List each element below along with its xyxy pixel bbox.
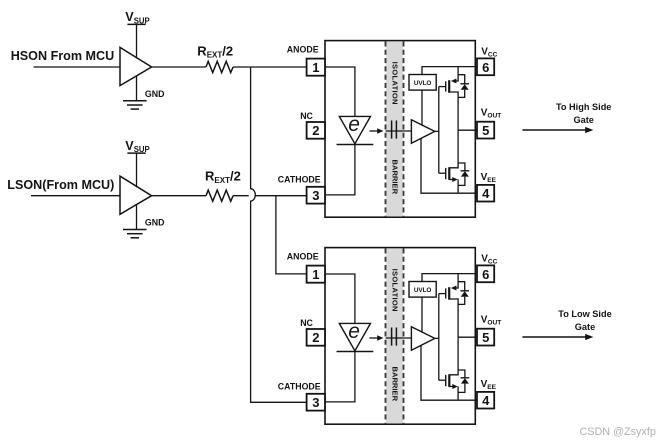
svg-text:BARRIER: BARRIER bbox=[390, 159, 399, 194]
wire buffer to resistor R1 bbox=[152, 66, 206, 68]
wire VCC rail of U1 (high-side driver) bbox=[422, 67, 477, 75]
svg-text:Gate: Gate bbox=[575, 322, 595, 332]
svg-text:5: 5 bbox=[482, 330, 489, 345]
svg-text:6: 6 bbox=[482, 267, 489, 282]
wire VCC rail of U3 (low-side driver) bbox=[422, 274, 477, 282]
wire pin1 to LED anode of U3 (low-side driver) bbox=[325, 274, 355, 323]
coupling capacitor across barrier of U3 (low-side driver) bbox=[386, 328, 412, 346]
svg-text:ISOLATION: ISOLATION bbox=[390, 269, 399, 312]
wire UVLO to op-amp of U1 (high-side driver) bbox=[421, 90, 423, 126]
ground symbol (HSON buffer) bbox=[123, 76, 147, 110]
wire LSON input to buffer bbox=[31, 195, 120, 197]
pin 3 CATHODE box of U3 (low-side driver) bbox=[307, 394, 325, 411]
transistor Q32 low-side output FET of U3 (low-side driver) bbox=[439, 370, 458, 400]
body diode of Q12 of U1 (high-side driver) bbox=[458, 163, 469, 185]
coupling capacitor across barrier of U1 (high-side driver) bbox=[386, 121, 412, 139]
svg-text:3: 3 bbox=[312, 395, 319, 410]
wire HSON input to buffer bbox=[34, 66, 121, 68]
wire LED cathode to pin 3 of U3 (low-side driver) bbox=[325, 352, 355, 402]
svg-text:NC: NC bbox=[300, 111, 313, 121]
svg-text:BARRIER: BARRIER bbox=[390, 366, 399, 401]
svg-text:To Low Side: To Low Side bbox=[558, 309, 611, 319]
wire pin1 to LED anode of U1 (high-side driver) bbox=[325, 67, 355, 116]
wire resistor R2 to pin 3 of U1 (passes under hop) bbox=[233, 195, 307, 197]
buffer amplifier U4 (LSON driver) bbox=[120, 176, 152, 214]
wire resistor R1 to pin 1 of U1 bbox=[233, 66, 307, 68]
signal arrow LED to barrier of U1 (high-side driver) bbox=[369, 128, 383, 134]
pin 1 ANODE box of U1 (high-side driver) bbox=[307, 59, 325, 76]
body diode of Q11 of U1 (high-side driver) bbox=[458, 75, 469, 98]
wire midpoint to pin 5 VOUT of U1 (high-side driver) bbox=[458, 130, 477, 163]
wire LED cathode to pin 3 of U1 (high-side driver) bbox=[325, 145, 355, 195]
svg-text:Gate: Gate bbox=[573, 115, 593, 125]
svg-text:GND: GND bbox=[145, 89, 165, 99]
svg-text:HSON From MCU: HSON From MCU bbox=[11, 49, 115, 63]
wire VEE rail of U1 (high-side driver) bbox=[421, 138, 477, 193]
wire VEE rail of U3 (low-side driver) bbox=[421, 345, 477, 400]
wire UVLO to op-amp of U3 (low-side driver) bbox=[421, 297, 423, 333]
svg-text:3: 3 bbox=[312, 188, 319, 203]
body diode of Q31 of U3 (low-side driver) bbox=[458, 282, 469, 305]
pin 4 VEE box of U1 (high-side driver) bbox=[475, 185, 494, 202]
svg-text:ANODE: ANODE bbox=[287, 45, 319, 55]
pin 3 CATHODE box of U1 (high-side driver) bbox=[307, 187, 325, 204]
wire op-amp to gate bus of U1 (high-side driver) bbox=[435, 87, 439, 174]
body diode of Q32 of U3 (low-side driver) bbox=[458, 370, 469, 392]
IC U1 (high-side driver) isolated gate driver body bbox=[325, 41, 475, 218]
isolation barrier column of U1 (high-side driver) bbox=[386, 41, 404, 216]
pin 2 NC box of U3 (low-side driver) bbox=[307, 329, 325, 346]
resistor R2 REXT/2 bbox=[206, 190, 233, 201]
pin 1 ANODE box of U3 (low-side driver) bbox=[307, 266, 325, 283]
svg-text:UVLO: UVLO bbox=[414, 287, 431, 294]
pin 4 VEE box of U3 (low-side driver) bbox=[475, 392, 494, 409]
pin 5 VOUT box of U1 (high-side driver) bbox=[475, 122, 494, 139]
pin 5 VOUT box of U3 (low-side driver) bbox=[475, 329, 494, 346]
svg-text:NC: NC bbox=[300, 318, 313, 328]
resistor R1 REXT/2 bbox=[206, 61, 233, 72]
svg-text:2: 2 bbox=[312, 123, 319, 138]
UVLO block of U1 (high-side driver) bbox=[409, 75, 436, 91]
svg-text:GND: GND bbox=[145, 218, 165, 228]
pin 6 VCC box of U1 (high-side driver) bbox=[475, 58, 494, 75]
pin 2 NC box of U1 (high-side driver) bbox=[307, 122, 325, 139]
svg-text:5: 5 bbox=[482, 123, 489, 138]
svg-text:4: 4 bbox=[482, 393, 490, 408]
buffer amplifier U2 (HSON driver) bbox=[120, 47, 152, 85]
isolation barrier column of U3 (low-side driver) bbox=[386, 248, 404, 423]
output arrow to high side gate bbox=[522, 127, 593, 133]
transistor Q11 high-side output FET of U1 (high-side driver) bbox=[439, 67, 458, 131]
svg-text:UVLO: UVLO bbox=[414, 80, 431, 87]
power symbol VSUP (LSON buffer) bbox=[125, 139, 149, 187]
svg-text:1: 1 bbox=[312, 60, 319, 75]
op-amp buffer inside U3 (low-side driver) bbox=[411, 327, 434, 350]
ground symbol (LSON buffer) bbox=[123, 204, 147, 238]
pin 6 VCC box of U3 (low-side driver) bbox=[475, 265, 494, 282]
svg-text:CATHODE: CATHODE bbox=[278, 382, 321, 392]
svg-text:4: 4 bbox=[482, 186, 490, 201]
LED emitter D11 of U1 (high-side driver) bbox=[337, 113, 374, 145]
wire buffer to resistor R2 bbox=[152, 195, 206, 197]
UVLO block of U3 (low-side driver) bbox=[409, 282, 436, 298]
svg-text:CSDN @Zsyxfp: CSDN @Zsyxfp bbox=[580, 426, 656, 438]
op-amp buffer inside U1 (high-side driver) bbox=[411, 120, 434, 143]
svg-text:1: 1 bbox=[312, 267, 319, 282]
LED emitter D31 of U3 (low-side driver) bbox=[337, 320, 374, 352]
svg-text:To High Side: To High Side bbox=[556, 102, 611, 112]
transistor Q31 high-side output FET of U3 (low-side driver) bbox=[439, 274, 458, 338]
svg-text:e: e bbox=[348, 320, 360, 343]
wire HSON branch down to U3 cathode (with hop over LSON wire) bbox=[251, 67, 307, 402]
svg-text:2: 2 bbox=[312, 330, 319, 345]
power symbol VSUP (HSON buffer) bbox=[125, 10, 149, 58]
transistor Q12 low-side output FET of U1 (high-side driver) bbox=[439, 163, 458, 193]
svg-text:ANODE: ANODE bbox=[287, 252, 319, 262]
wire midpoint to pin 5 VOUT of U3 (low-side driver) bbox=[458, 337, 477, 370]
svg-text:e: e bbox=[348, 113, 360, 136]
svg-text:LSON(From MCU): LSON(From MCU) bbox=[7, 178, 114, 192]
svg-text:6: 6 bbox=[482, 60, 489, 75]
wire op-amp to gate bus of U3 (low-side driver) bbox=[435, 294, 439, 381]
svg-text:CATHODE: CATHODE bbox=[278, 175, 321, 185]
signal arrow LED to barrier of U3 (low-side driver) bbox=[369, 335, 383, 341]
wire LSON branch down to U3 anode pin 1 bbox=[276, 196, 307, 274]
IC U3 (low-side driver) isolated gate driver body bbox=[325, 248, 475, 425]
output arrow to low side gate bbox=[522, 334, 593, 340]
svg-text:ISOLATION: ISOLATION bbox=[390, 62, 399, 105]
